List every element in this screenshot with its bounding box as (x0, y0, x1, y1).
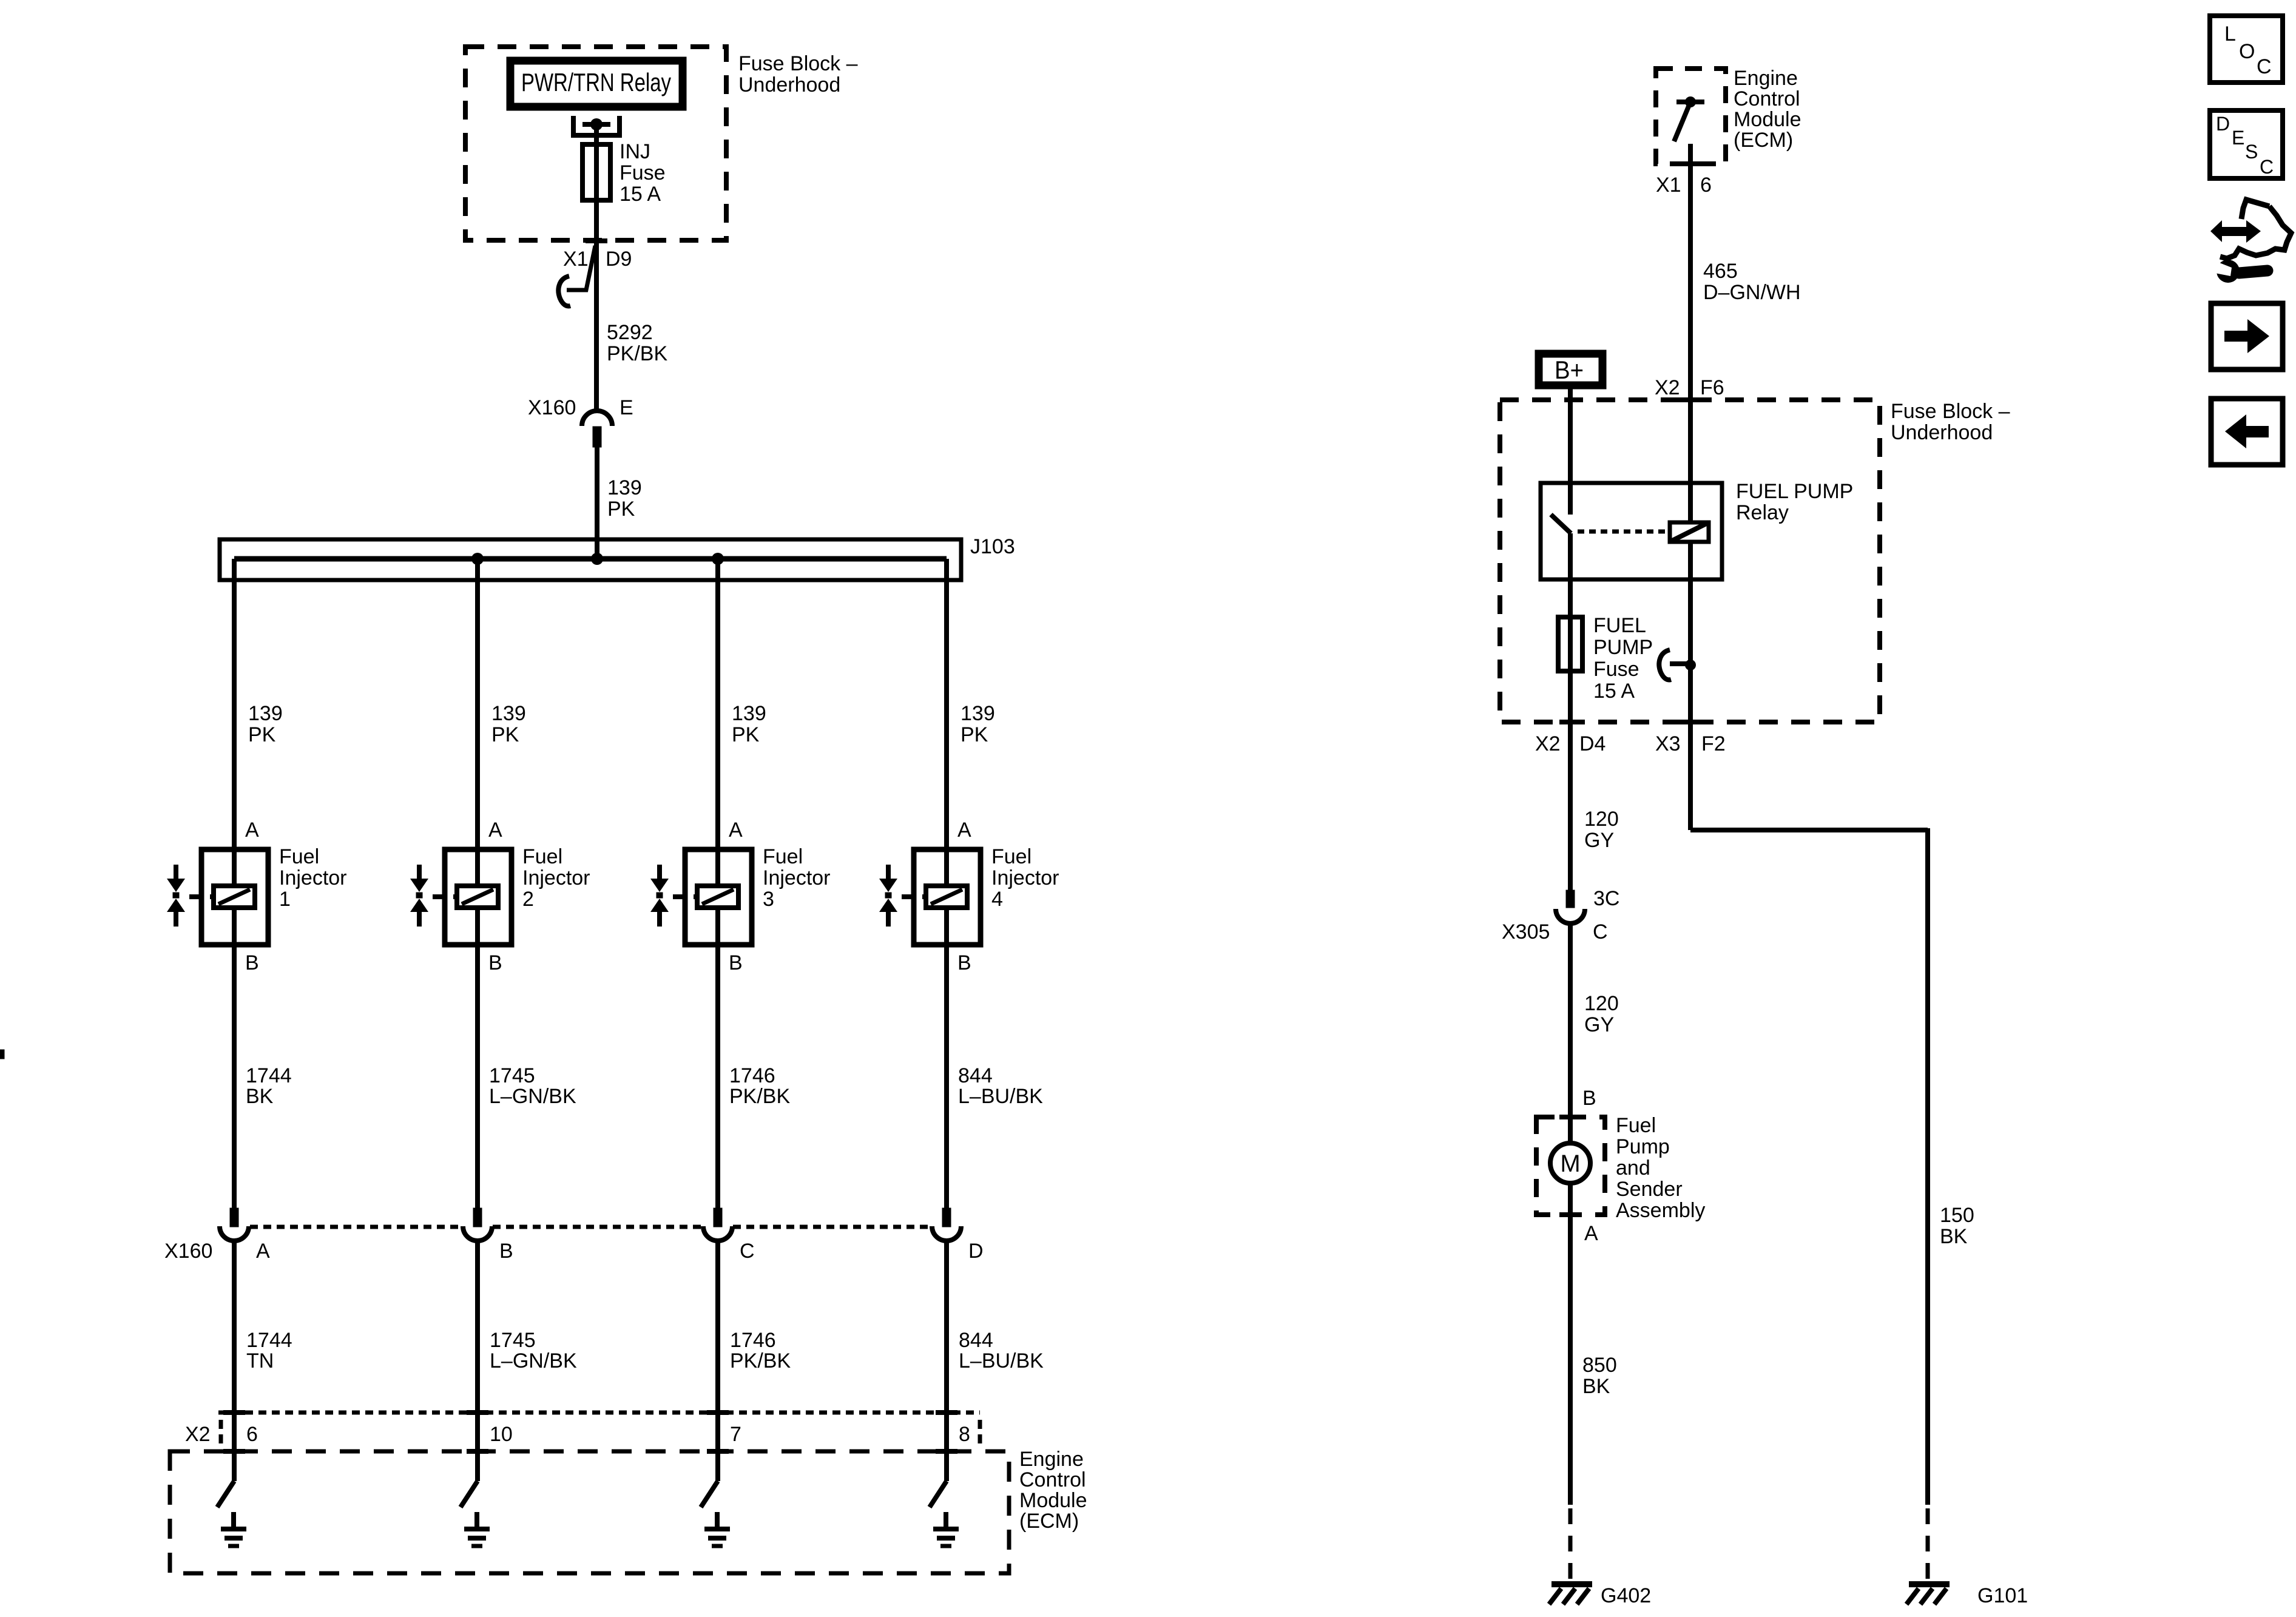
connector X160 female cup (A) (220, 1226, 249, 1241)
fuel injector 2 label (522, 845, 590, 911)
svg-text:Fuse Block –: Fuse Block – (738, 52, 858, 75)
ECM injector 4 driver switch (944, 1451, 949, 1481)
svg-text:Module: Module (1019, 1489, 1087, 1512)
wire out of pump motor (1568, 1183, 1573, 1215)
junction dot on relay terminal (590, 118, 603, 130)
tick at ECM boundary (col 3) (707, 1449, 729, 1454)
wire relay coil to X3 F2 (1688, 542, 1693, 722)
ground symbol (ECM driver 2) (464, 1512, 490, 1546)
fuel injector 4 (879, 849, 981, 945)
svg-text:BK: BK (246, 1085, 274, 1108)
wire 139 PK to injector 4 (944, 559, 949, 849)
junction dot ECM switch (1685, 96, 1696, 107)
tick at ECM boundary (col 1) (223, 1449, 245, 1454)
wire label 1745 L–GN/BK (490, 1329, 577, 1372)
svg-text:A: A (256, 1240, 270, 1263)
connector X305 male pin (3C) (1566, 890, 1575, 908)
tick at connector X2 (pin 7) (707, 1410, 729, 1415)
svg-text:and: and (1616, 1156, 1650, 1180)
svg-text:S: S (2245, 141, 2258, 163)
svg-text:10: 10 (490, 1423, 513, 1446)
connector X160 E male pin (593, 427, 601, 447)
svg-text:J103: J103 (970, 535, 1015, 558)
svg-text:B: B (488, 951, 502, 974)
svg-text:120: 120 (1584, 992, 1619, 1015)
ground symbol (ECM driver 3) (704, 1512, 730, 1546)
svg-text:1746: 1746 (730, 1329, 776, 1352)
wire 139 PK to injector 2 (475, 559, 480, 849)
svg-text:Fuel: Fuel (1616, 1114, 1656, 1137)
ECM label (top right) (1734, 67, 1801, 152)
connector X305 female cup (1556, 909, 1585, 923)
ECM dashed box (top right) (1656, 69, 1726, 164)
fuse block underhood (left) label (738, 52, 858, 96)
svg-text:1744: 1744 (246, 1329, 292, 1352)
wire through INJ fuse (594, 144, 599, 200)
svg-text:139: 139 (491, 702, 526, 725)
svg-text:Fuse: Fuse (620, 161, 666, 184)
wire into pump motor (1568, 1117, 1573, 1143)
FUEL PUMP fuse label (1593, 614, 1653, 703)
svg-text:X1: X1 (1656, 174, 1681, 197)
INJ fuse value label (620, 140, 666, 206)
svg-text:465: 465 (1703, 260, 1738, 283)
svg-text:BK: BK (1940, 1225, 1968, 1248)
svg-text:Injector: Injector (279, 866, 347, 890)
wire 1746 PK/BK to ECM (715, 1241, 720, 1451)
svg-text:Engine: Engine (1734, 67, 1798, 90)
wire label 844 L–BU/BK (958, 1064, 1043, 1108)
ECM fuel pump control contact bar (1676, 100, 1704, 104)
ECM injector 2 driver switch (475, 1451, 480, 1481)
svg-text:Injector: Injector (522, 866, 590, 890)
relay output terminal bracket (573, 116, 620, 135)
svg-text:5292: 5292 (607, 321, 653, 344)
svg-text:X2: X2 (1655, 376, 1680, 399)
svg-text:Pump: Pump (1616, 1135, 1670, 1158)
forward arrow icon box (2211, 303, 2283, 370)
ground symbol (ECM driver 4) (933, 1512, 959, 1546)
wire 150 BK down to ground (1925, 828, 1930, 1505)
svg-text:L–GN/BK: L–GN/BK (490, 1349, 577, 1372)
splice J103 bus bar (234, 556, 947, 562)
svg-text:X2: X2 (1535, 732, 1561, 755)
svg-text:E: E (2232, 127, 2244, 149)
svg-text:A: A (957, 819, 971, 842)
svg-text:TN: TN (246, 1349, 274, 1372)
wire 1745 L–GN/BK (475, 945, 480, 1208)
connector X160 row dashed line (250, 1225, 931, 1229)
connector X2 left boundary tick (219, 1420, 223, 1445)
connector X160 male pin (D) (942, 1208, 951, 1227)
svg-text:X305: X305 (1502, 920, 1550, 944)
connector X160 E female dome (582, 411, 612, 426)
svg-text:139: 139 (732, 702, 766, 725)
svg-text:L–BU/BK: L–BU/BK (958, 1085, 1043, 1108)
ECM switch arm (1674, 102, 1690, 141)
wire 139 PK to injector 3 (715, 559, 720, 849)
fuel injector 2 (410, 849, 512, 945)
fuse block underhood (right) label (1891, 400, 2010, 444)
tick at pump boundary (A) (1559, 1212, 1581, 1217)
svg-text:D: D (968, 1240, 984, 1263)
svg-text:D–GN/WH: D–GN/WH (1703, 281, 1801, 304)
tick at ECM boundary (pin 6) (1680, 161, 1701, 166)
svg-text:X2: X2 (185, 1423, 211, 1446)
svg-text:PK/BK: PK/BK (730, 1349, 791, 1372)
wire label 139 PK (col 1) (248, 702, 283, 746)
svg-text:PK: PK (607, 498, 635, 521)
wire label 1744 BK (246, 1064, 292, 1108)
svg-text:Control: Control (1734, 87, 1800, 110)
connector X160 male pin (B) (473, 1208, 482, 1227)
fuel pump motor M (1550, 1143, 1590, 1183)
wire 1744 TN to ECM (232, 1241, 237, 1451)
relay FUEL PUMP Relay box (1541, 483, 1722, 579)
wire X305 to fuel pump (1568, 923, 1573, 1117)
junction dot J103 col3 (712, 553, 724, 565)
tick at fuse block boundary (D4) (1559, 720, 1581, 724)
svg-text:(ECM): (ECM) (1734, 129, 1793, 152)
wire 1746 PK/BK (715, 945, 720, 1208)
svg-text:B: B (957, 951, 971, 974)
wire label 1745 L–GN/BK (489, 1064, 576, 1108)
svg-text:FUEL: FUEL (1593, 614, 1646, 637)
svg-text:GY: GY (1584, 1013, 1614, 1036)
svg-text:Engine: Engine (1019, 1448, 1084, 1471)
wire label 850 BK (1582, 1354, 1617, 1398)
svg-text:139: 139 (248, 702, 283, 725)
dashed lead to ground G101 (1926, 1508, 1930, 1582)
relay terminal bar (582, 122, 610, 127)
wire X2 D4 to connector X305 (1568, 722, 1573, 890)
svg-text:FUEL PUMP: FUEL PUMP (1736, 480, 1853, 503)
tick at connector X2 (pin 6) (223, 1410, 245, 1415)
wire 139 PK to injector 1 (232, 559, 237, 849)
svg-text:B+: B+ (1555, 356, 1584, 384)
svg-text:3C: 3C (1593, 887, 1619, 910)
wire 150 BK horizontal jog (1690, 828, 1928, 832)
junction dot J103 col2 (471, 553, 484, 565)
svg-text:X160: X160 (528, 396, 576, 419)
wire relay switch to FUEL PUMP fuse (1568, 533, 1573, 617)
wire B+ to relay switch (1568, 389, 1573, 515)
svg-text:A: A (245, 819, 259, 842)
svg-text:Control: Control (1019, 1468, 1086, 1491)
svg-text:139: 139 (961, 702, 995, 725)
svg-text:Module: Module (1734, 108, 1801, 131)
wire 120 GY upper label (1584, 808, 1619, 852)
wire 139 PK feed to J103 (595, 447, 599, 559)
svg-text:D: D (2216, 113, 2230, 135)
svg-text:PK: PK (732, 723, 760, 746)
ground G402 symbol (1549, 1584, 1592, 1604)
fuel pump and sender assembly label (1616, 1114, 1705, 1222)
wire label 139 PK (col 2) (491, 702, 526, 746)
terminal hook lead (1670, 661, 1687, 666)
svg-text:Fuel: Fuel (763, 845, 803, 868)
connector X2 right boundary tick (978, 1420, 982, 1445)
svg-text:Fuse: Fuse (1593, 658, 1639, 681)
svg-text:X3: X3 (1655, 732, 1681, 755)
fuel injector 1 (167, 849, 268, 945)
FUEL PUMP Relay label (1736, 480, 1853, 524)
svg-text:PWR/TRN Relay: PWR/TRN Relay (521, 68, 671, 96)
svg-text:X160: X160 (164, 1240, 212, 1263)
svg-text:844: 844 (959, 1329, 993, 1352)
svg-text:B: B (499, 1240, 513, 1263)
wire label 150 BK (1940, 1204, 1974, 1248)
svg-text:PK/BK: PK/BK (729, 1085, 790, 1108)
svg-text:L: L (2224, 22, 2236, 46)
tick at fuse block boundary (F6) (1680, 397, 1701, 402)
wire ECM switch to pin 6 (1688, 144, 1693, 164)
wire 139 PK feed label (607, 476, 642, 521)
wire 465 D-GN/WH (1688, 164, 1693, 522)
connector X160 male pin (A) (230, 1208, 238, 1227)
junction dot at coil output (1685, 660, 1696, 670)
wire label 465 D-GN/WH (1703, 260, 1801, 304)
wire 850 BK (1568, 1215, 1573, 1505)
fuse FUEL PUMP Fuse 15 A (1558, 617, 1582, 671)
dashed lead to ground G402 (1568, 1508, 1573, 1582)
svg-text:D9: D9 (606, 248, 632, 271)
relay switch arm (1551, 515, 1571, 533)
svg-text:6: 6 (1700, 174, 1712, 197)
svg-text:A: A (1584, 1222, 1598, 1245)
svg-text:B: B (245, 951, 259, 974)
svg-text:139: 139 (607, 476, 642, 499)
svg-text:PK: PK (248, 723, 276, 746)
svg-text:A: A (488, 819, 502, 842)
svg-text:C: C (1593, 920, 1608, 944)
svg-text:PUMP: PUMP (1593, 636, 1653, 659)
wire relay terminal to INJ fuse (594, 124, 599, 146)
wire label 139 PK (col 4) (961, 702, 995, 746)
svg-text:Underhood: Underhood (1891, 421, 1993, 444)
svg-text:Sender: Sender (1616, 1178, 1683, 1201)
wire fuse to X2 D4 (1568, 671, 1573, 722)
junction dot J103 feed (591, 553, 603, 565)
DESC icon box (2210, 110, 2283, 178)
tick at pump boundary (B) (1559, 1115, 1581, 1119)
svg-text:1746: 1746 (729, 1064, 775, 1087)
svg-text:G402: G402 (1601, 1584, 1651, 1607)
wire 5292 PK/BK label (607, 321, 667, 365)
splice J103 bus outline (220, 539, 961, 580)
fuel injector 3 label (763, 845, 831, 911)
connector X1 D9 terminal leg (567, 246, 595, 290)
svg-text:PK: PK (491, 723, 519, 746)
wire 120 GY lower label (1584, 992, 1619, 1036)
svg-text:7: 7 (730, 1423, 741, 1446)
svg-text:Injector: Injector (763, 866, 831, 890)
fuel injector 1 label (279, 845, 347, 911)
fuse block underhood (left) dashed box (465, 47, 726, 240)
tick at fuse block boundary X1 D9 (586, 238, 607, 243)
tick at connector X2 (pin 8) (936, 1410, 957, 1415)
svg-text:Underhood: Underhood (738, 73, 840, 96)
svg-text:Fuel: Fuel (279, 845, 319, 868)
wire 1744 BK (232, 945, 237, 1208)
wire label 1744 TN (246, 1329, 292, 1372)
tick at ECM boundary (col 4) (936, 1449, 957, 1454)
fuse block underhood (right) dashed box (1500, 400, 1880, 722)
connector X160 female cup (B) (463, 1226, 492, 1241)
ECM label (left) (1019, 1448, 1087, 1533)
terminal hook at coil output (1659, 650, 1671, 680)
svg-text:A: A (729, 819, 743, 842)
connector X160 female cup (C) (703, 1226, 732, 1241)
wire 150 BK vertical from relay coil (1688, 722, 1693, 830)
connector X2 row dashed line (218, 1411, 980, 1415)
connector X160 male pin (C) (714, 1208, 722, 1227)
svg-text:4: 4 (991, 888, 1003, 911)
svg-text:L–BU/BK: L–BU/BK (959, 1349, 1044, 1372)
svg-text:C: C (2257, 55, 2272, 78)
svg-text:15 A: 15 A (1593, 680, 1635, 703)
svg-text:B: B (729, 951, 743, 974)
wire label 1746 PK/BK (730, 1329, 791, 1372)
wire label 139 PK (col 3) (732, 702, 766, 746)
svg-text:Fuel: Fuel (991, 845, 1032, 868)
ECM dashed box (left) (170, 1451, 1009, 1573)
connector X1 D9 terminal hook (558, 276, 570, 306)
relay coil (1670, 522, 1709, 542)
svg-text:X1: X1 (563, 248, 589, 271)
svg-text:E: E (620, 396, 633, 419)
svg-text:1: 1 (279, 888, 291, 911)
svg-text:844: 844 (958, 1064, 993, 1087)
tick at ECM boundary (col 2) (467, 1449, 488, 1454)
wire label 1746 PK/BK (729, 1064, 790, 1108)
svg-text:G101: G101 (1977, 1584, 2028, 1607)
svg-text:O: O (2239, 40, 2255, 63)
svg-text:850: 850 (1582, 1354, 1617, 1377)
tick at connector X2 (pin 10) (467, 1410, 488, 1415)
svg-text:C: C (740, 1240, 755, 1263)
svg-text:L–GN/BK: L–GN/BK (489, 1085, 576, 1108)
connector X160 female cup (D) (932, 1226, 961, 1241)
svg-text:F6: F6 (1700, 376, 1724, 399)
svg-text:PK: PK (961, 723, 988, 746)
svg-text:1745: 1745 (489, 1064, 535, 1087)
tick at fuse block boundary (F2) (1680, 720, 1701, 724)
svg-text:INJ: INJ (620, 140, 650, 163)
svg-text:(ECM): (ECM) (1019, 1510, 1079, 1533)
ECM injector 1 driver switch (232, 1451, 237, 1481)
svg-text:15 A: 15 A (620, 183, 661, 206)
svg-text:1745: 1745 (490, 1329, 536, 1352)
svg-text:C: C (2260, 156, 2274, 178)
fuel pump and sender assembly dashed box (1536, 1117, 1605, 1215)
svg-text:Assembly: Assembly (1616, 1199, 1705, 1222)
back arrow icon box (2211, 399, 2283, 465)
svg-text:B: B (1582, 1087, 1596, 1110)
LOC icon box (2210, 16, 2283, 83)
svg-text:8: 8 (959, 1423, 970, 1446)
fuse INJ Fuse 15 A (582, 144, 610, 200)
page edge mark (0, 1050, 4, 1059)
svg-text:D4: D4 (1579, 732, 1606, 755)
svg-text:Fuel: Fuel (522, 845, 562, 868)
wire label 844 L–BU/BK (959, 1329, 1044, 1372)
battery feed B+ box (1539, 354, 1602, 385)
relay PWR/TRN Relay box (510, 61, 683, 107)
svg-text:3: 3 (763, 888, 774, 911)
ground G101 symbol (1906, 1584, 1950, 1604)
svg-text:BK: BK (1582, 1375, 1610, 1398)
wire 844 L–BU/BK to ECM (944, 1241, 949, 1451)
wire 1745 L–GN/BK to ECM (475, 1241, 480, 1451)
svg-text:PK/BK: PK/BK (607, 342, 667, 365)
svg-text:Injector: Injector (991, 866, 1059, 890)
svg-text:F2: F2 (1701, 732, 1726, 755)
wire 844 L–BU/BK (944, 945, 949, 1208)
svg-text:M: M (1560, 1150, 1580, 1177)
svg-text:1744: 1744 (246, 1064, 292, 1087)
svg-text:GY: GY (1584, 829, 1614, 852)
svg-text:150: 150 (1940, 1204, 1974, 1227)
ground symbol (ECM driver 1) (221, 1512, 246, 1546)
relay mechanical link (dashed) (1578, 530, 1667, 534)
ECM injector 3 driver switch (715, 1451, 720, 1481)
svg-text:Fuse Block –: Fuse Block – (1891, 400, 2010, 423)
svg-text:Relay: Relay (1736, 501, 1789, 524)
svg-text:6: 6 (246, 1423, 258, 1446)
svg-text:120: 120 (1584, 808, 1619, 831)
fuel injector 3 (650, 849, 752, 945)
wire INJ fuse to connector X1 D9 (594, 200, 599, 413)
fuel injector 4 label (991, 845, 1059, 911)
svg-text:2: 2 (522, 888, 534, 911)
service/navigation icon (double arrow, outline, wrench) (2210, 200, 2291, 283)
wire through FUEL PUMP fuse (1568, 617, 1573, 671)
